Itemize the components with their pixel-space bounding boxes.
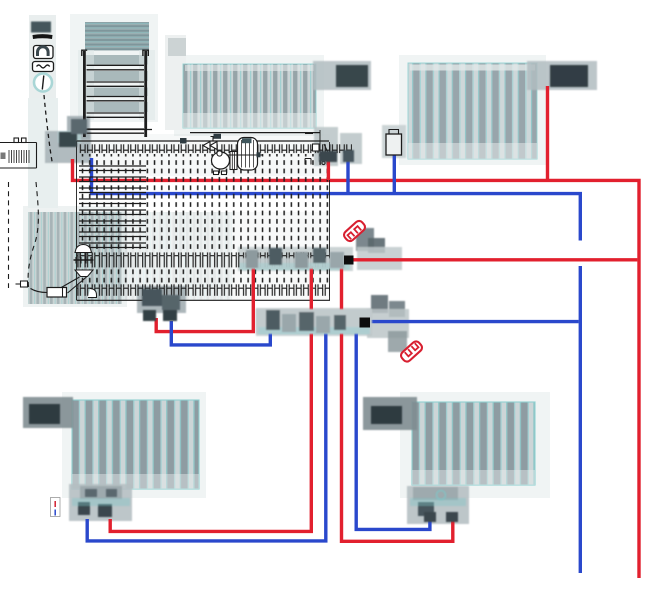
ghost column right of towel radiator: [165, 35, 186, 130]
bottom-left radiator body: [72, 400, 199, 489]
blue return riser to boiler + main return bus: [92, 158, 581, 241]
red supply branch manifold to bottom-right radiator: [342, 266, 453, 541]
red drop from top-middle radiator valve: [327, 158, 330, 180]
fade bands bottom radiators: [72, 474, 199, 489]
big radiator fins row A: [77, 252, 330, 267]
big radiator valve dark cores: [142, 289, 162, 306]
fade band bottom of top-mid radiator: [183, 113, 316, 128]
room thermostat display box: [33, 62, 54, 72]
boiler pump blob: [45, 131, 91, 163]
valve V1 top-middle radiator: [313, 61, 371, 90]
TRV V2 dark head: [550, 65, 588, 87]
supply manifold bar: [238, 247, 353, 271]
TRV valve V2 top-right radiator: [527, 61, 597, 90]
big radiator vertical dashed columns: [80, 154, 330, 252]
top-right radiator body: [408, 63, 537, 159]
valve V1 dark core: [336, 65, 368, 87]
boiler dashed silhouette curve: [28, 182, 38, 291]
towel radiator halo: [70, 14, 158, 122]
thermostat wireless dashed link: [44, 95, 53, 164]
boiler burner unit outline: [0, 138, 37, 168]
bottom-right radiator halo: [400, 392, 550, 498]
blue drop from top-right radiator lockshield: [393, 155, 396, 192]
big radiator top line upper: [85, 130, 320, 133]
towel radiator rung outlines: [87, 65, 145, 133]
big radiator fins row B: [77, 284, 330, 296]
room thermostat halo column: [29, 15, 56, 103]
bottom-left radiator halo: [62, 392, 206, 498]
blue drop from top-mid fitting to return bus: [346, 160, 349, 192]
node supply manifold inlet (black square): [344, 256, 354, 265]
blue return branch big-radiator valve to manifold: [171, 321, 270, 345]
blue return stub from pump group 2 to right vertical: [368, 320, 579, 323]
bottom-right radiator body: [412, 402, 535, 485]
pump group drawing on big radiator: [203, 134, 262, 175]
pump group 1: [356, 228, 374, 251]
bottom-right cluster dark cells: [418, 502, 434, 516]
thermometer icon 1: [342, 219, 366, 243]
room thermostat dial: [34, 74, 52, 92]
supply manifold bar bottom overdraw: [240, 258, 346, 269]
flow direction mini legend: [51, 498, 61, 517]
boiler gas valve assembly: [16, 245, 97, 298]
return manifold bar overdraw: [256, 309, 372, 334]
bottom-left cluster dark cells: [85, 489, 97, 497]
drop fitting blue below top-mid valve: [340, 133, 362, 164]
right-end fitting line art: [305, 134, 328, 165]
towel radiator side tubes: [83, 51, 147, 137]
supply manifold dark cells: [246, 250, 258, 268]
red supply branch manifold to big-radiator valve: [156, 266, 253, 332]
top-middle radiator body: [183, 64, 316, 128]
thermostat dark block: [31, 22, 51, 33]
room thermostat black bar: [33, 34, 53, 39]
top-right radiator halo: [399, 55, 546, 165]
top-middle radiator halo: [174, 55, 324, 136]
red supply feed to manifold from node: [350, 258, 637, 261]
room thermostat receiver box: [34, 46, 54, 59]
fade band bottom of top-right radiator: [408, 143, 537, 159]
blue drop fitting dark core: [343, 150, 354, 162]
thermometer icon 2: [399, 340, 423, 364]
left-middle radiator halo: [23, 206, 127, 307]
bottom-left radiator inlet valve blob: [23, 397, 73, 428]
bottom-right inlet valve dark core: [371, 406, 402, 424]
lockshield small valve left of top-right radiator: [382, 125, 406, 158]
valve under big radiator: [137, 286, 186, 313]
return manifold dark cells: [266, 310, 280, 330]
red supply branch manifold to bottom-left radiator: [110, 266, 311, 531]
bottom-left inlet valve dark core: [29, 404, 60, 424]
teal accents on bottom clusters: [72, 498, 130, 506]
red drop from top-right radiator valve: [546, 86, 549, 180]
big radiator bottom line: [77, 299, 331, 301]
blue return branch bottom-right radiator to manifold: [356, 332, 430, 529]
big radiator side edges: [77, 130, 330, 300]
towel valve dark core: [71, 119, 87, 134]
towel radiator side wash columns: [78, 50, 94, 120]
red drop fitting dark core: [319, 151, 337, 162]
ghost stripe wash over big radiator area: [80, 212, 232, 300]
lockshield valve outline top-right radiator: [386, 130, 402, 156]
towel radiator top block: [85, 22, 149, 51]
small valve on line above pump group: [180, 138, 187, 144]
pump group 2: [371, 295, 388, 313]
boiler pump dark core: [59, 132, 77, 147]
bottom-right radiator bottom cluster: [407, 486, 469, 524]
big radiator top line lower: [77, 140, 330, 142]
blue return right vertical lower part: [579, 266, 582, 573]
left-middle radiator body: [28, 212, 122, 304]
left rung rows of big radiator: [79, 166, 146, 248]
drop fitting red below top-mid valve: [314, 127, 338, 166]
towel radiator tube top caps: [82, 50, 149, 56]
towel radiator valve blob: [67, 116, 90, 139]
red supply riser from boiler + main supply bus + right drop pipe: [73, 159, 640, 578]
bottom-left radiator bottom cluster: [69, 484, 132, 521]
ghost noise column below thermostat: [28, 98, 58, 208]
blue return branch bottom-left radiator to manifold: [87, 332, 326, 541]
bottom-right radiator inlet valve blob: [363, 397, 417, 430]
node return manifold outlet (black square): [360, 318, 371, 328]
big radiator fins row top: [79, 144, 352, 153]
big radiator dashed columns lower band: [80, 269, 330, 284]
return manifold bar: [256, 308, 372, 336]
towel radiator gray rungs: [86, 55, 148, 112]
boiler dashed outline vertical: [8, 182, 10, 288]
